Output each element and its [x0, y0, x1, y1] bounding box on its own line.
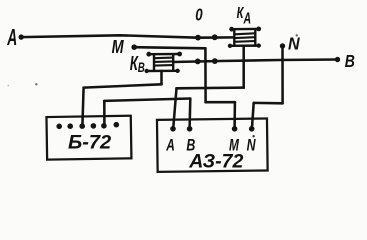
svg-text:АЗ-72: АЗ-72: [188, 150, 243, 172]
node A terminal dot: [19, 34, 24, 39]
junction dot 1 on wire B: [195, 59, 201, 65]
svg-text:В: В: [138, 59, 145, 75]
coil KA bottom bar: [230, 44, 259, 47]
label KA: [237, 4, 245, 21]
scan speck: [7, 85, 9, 87]
wire from B-72 pin 5 up: [103, 101, 106, 126]
coil KA winding lines: [235, 33, 256, 34]
coil KA top bar: [231, 28, 259, 31]
wire N horizontal left: [254, 102, 283, 105]
wire down to terminal B of AZ-72: [188, 99, 191, 129]
terminal label M: [229, 137, 240, 155]
wire A (top horizontal wire): [21, 35, 234, 37]
junction dot 2 on wire B: [212, 58, 218, 64]
node M terminal dot: [131, 44, 137, 50]
coil KA left edge: [233, 29, 235, 46]
AZ-72 terminal dots: [170, 126, 176, 132]
wire KB lead left: [84, 84, 162, 87]
label B (right wire): [345, 53, 355, 72]
terminal label N: [247, 137, 256, 155]
node N terminal dot: [280, 43, 285, 48]
terminal label A: [165, 137, 174, 155]
label KB: [130, 52, 139, 74]
label B-72: [68, 132, 111, 154]
svg-text:А: А: [243, 9, 251, 27]
wire down to B-72 pin 3: [82, 88, 83, 127]
svg-text:В: В: [345, 53, 355, 72]
label O: [195, 6, 203, 25]
svg-text:0: 0: [195, 6, 203, 25]
wire down to terminal A of AZ-72: [173, 88, 176, 129]
scan speck: [35, 83, 37, 85]
svg-text:А: А: [165, 137, 174, 155]
coil KA right edge: [254, 29, 256, 46]
wire KA lead left: [177, 86, 244, 89]
node B terminal dot: [335, 57, 340, 62]
terminal label B: [186, 137, 195, 155]
svg-text:N: N: [288, 34, 300, 54]
wire M down to terminal M of AZ-72: [233, 102, 236, 129]
wire from coil KB bottom lead down: [160, 71, 163, 84]
wire down to terminal N of AZ-72: [252, 103, 254, 129]
wire right toward AZ-72 B: [104, 99, 190, 101]
wire M vertical down: [204, 48, 207, 102]
relay coil KB: [145, 52, 183, 74]
coil KB winding lines: [154, 57, 173, 60]
label N: [288, 34, 300, 54]
wire N vertical down: [281, 46, 284, 103]
node O junction dot 1 on wire A: [195, 35, 201, 41]
box B-72: [46, 116, 131, 160]
scan speck above terminal N label: [252, 135, 254, 137]
svg-text:Б-72: Б-72: [68, 132, 111, 154]
label AZ-72: [188, 150, 243, 172]
label A (left wire): [6, 26, 17, 51]
label M: [112, 36, 125, 57]
wire from coil KA bottom lead down: [242, 46, 245, 88]
wire M horizontal to AZ-72: [206, 101, 235, 104]
coil KB right edge: [172, 54, 174, 71]
wire B (from coil KB right side to terminal B): [173, 60, 337, 63]
box AZ-72: [157, 118, 268, 172]
relay coil KA: [228, 27, 261, 49]
svg-text:М: М: [112, 36, 125, 57]
scan speck: [296, 34, 298, 36]
coil KB top bar: [148, 53, 180, 56]
B-72 pin dots: [56, 124, 62, 130]
svg-text:А: А: [6, 26, 17, 51]
coil KB left edge: [153, 54, 155, 71]
node junction dot 2 on wire A: [212, 34, 218, 40]
coil KB bottom bar: [146, 70, 178, 73]
svg-text:N: N: [247, 137, 256, 155]
wire M (from M dot to corner): [134, 47, 205, 48]
